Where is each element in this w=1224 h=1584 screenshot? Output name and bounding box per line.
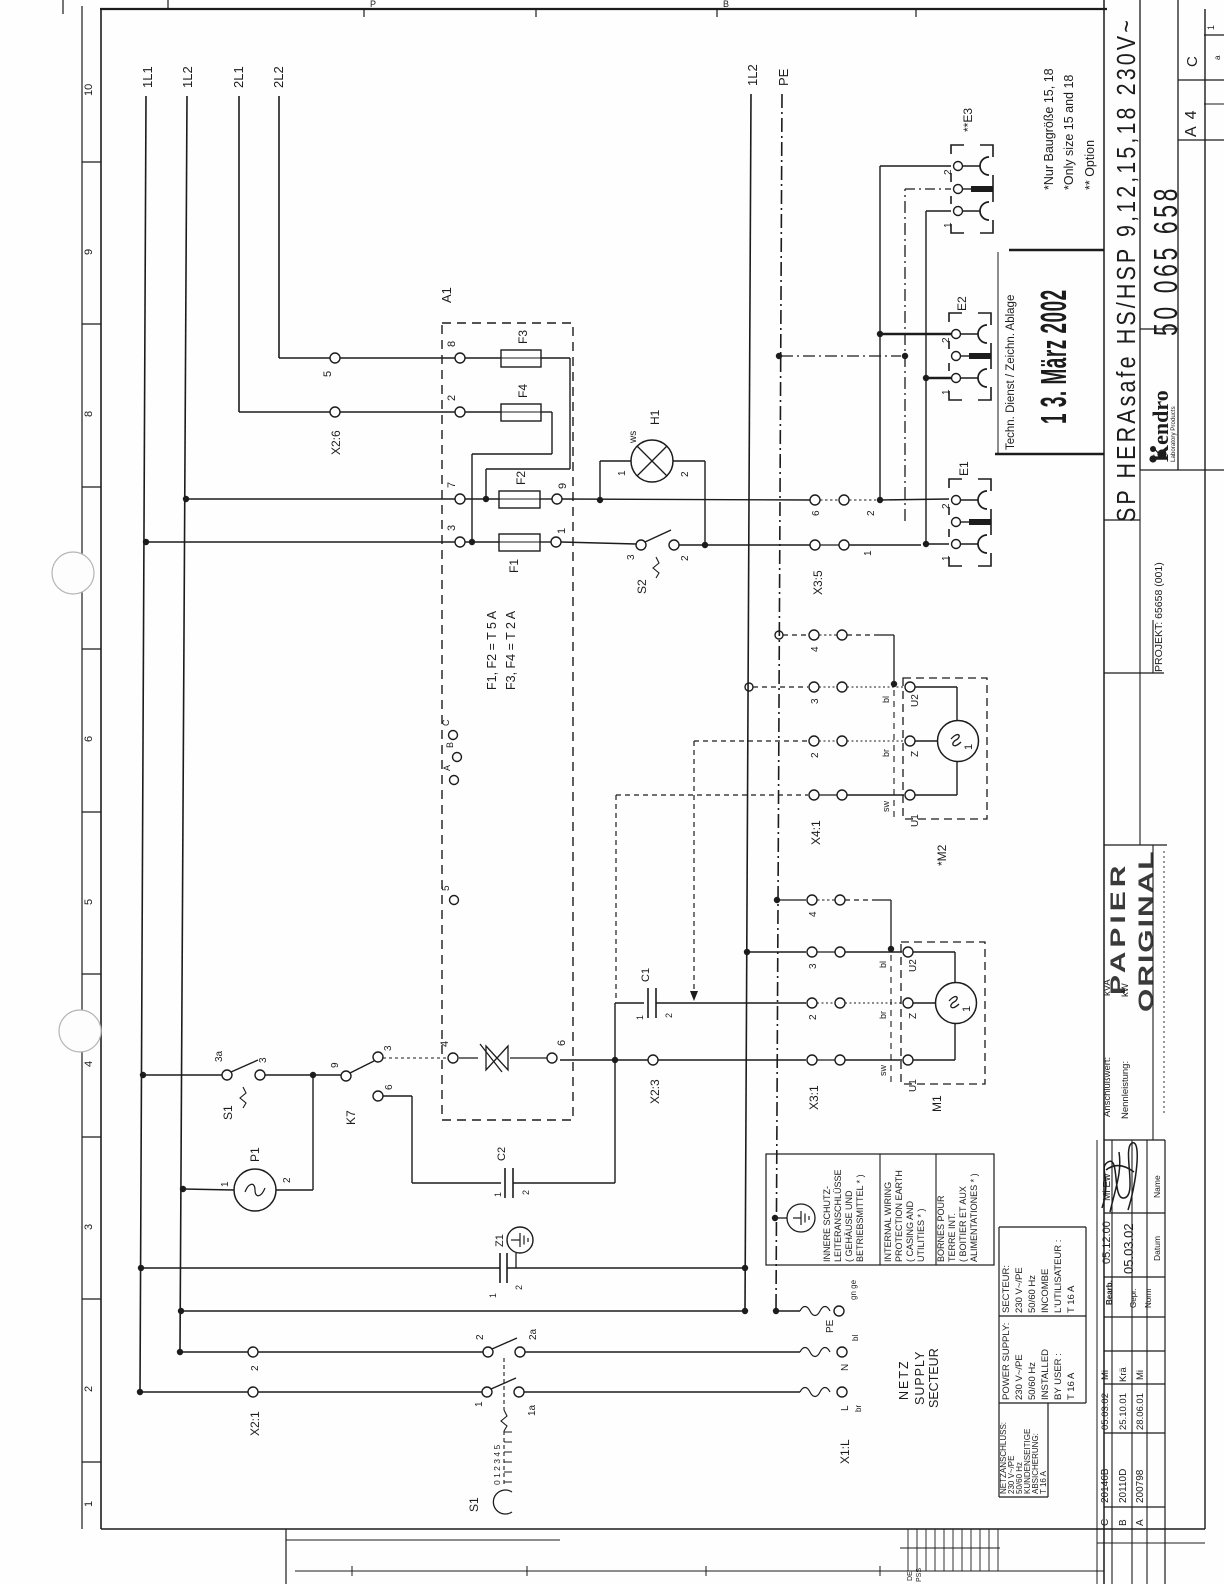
svg-text:1: 1 [943, 222, 954, 228]
punch hole lower [59, 1010, 101, 1052]
svg-text:25.10.01: 25.10.01 [1118, 1393, 1129, 1430]
riser wire 1 (E2 E3) [925, 211, 927, 544]
svg-text:2: 2 [808, 1014, 819, 1020]
X4:1 pin3 [809, 682, 819, 692]
svg-text:C: C [1100, 1519, 1111, 1526]
kendro cell bottom line [1140, 469, 1224, 471]
line filter Z1 earth circle [507, 1227, 533, 1253]
svg-text:B: B [445, 742, 455, 748]
svg-text:br: br [881, 749, 891, 757]
X3:1 pin1 [807, 1055, 817, 1065]
svg-text:U2: U2 [910, 694, 921, 707]
E1 PE terminal [952, 518, 961, 527]
relay contact K7 pin6 [373, 1091, 383, 1101]
title block inner verticals [1152, 845, 1154, 1140]
svg-text:sw: sw [878, 1065, 888, 1077]
varistor symbol [459, 1044, 547, 1072]
svg-text:*Only size 15 and 18: *Only size 15 and 18 [1062, 75, 1076, 190]
Z1 X-capacitor [499, 1253, 501, 1283]
svg-text:1 3. März 2002: 1 3. März 2002 [1035, 289, 1075, 424]
svg-text:X3:1: X3:1 [807, 1085, 821, 1110]
riser X2:3 to C1 and C2 [614, 1003, 616, 1183]
E2 terminal 1 [952, 374, 961, 383]
M2 row3 wire to U2 [847, 686, 904, 688]
svg-text:sw: sw [881, 801, 891, 813]
fuse F2 [465, 498, 499, 500]
svg-text:PAPIER: PAPIER [1105, 862, 1130, 995]
svg-text:6: 6 [556, 1040, 568, 1046]
svg-text:1: 1 [474, 1401, 485, 1407]
fuse F4 [465, 411, 501, 413]
svg-text:ws: ws [628, 431, 639, 444]
svg-text:5: 5 [441, 885, 452, 891]
svg-text:4: 4 [83, 1061, 95, 1067]
svg-text:8: 8 [83, 411, 95, 417]
S1 mechanism dashed link [503, 1358, 505, 1410]
riser wire 2 (E2 E3) [879, 166, 881, 500]
svg-text:a: a [1213, 55, 1222, 60]
svg-text:2: 2 [521, 1190, 531, 1195]
svg-text:9: 9 [557, 483, 569, 489]
svg-text:Mi Ew: Mi Ew [1102, 1173, 1113, 1201]
svg-text:Nennleistung:: Nennleistung: [1120, 1061, 1131, 1119]
svg-text:2: 2 [446, 395, 458, 401]
terminal X2:6 pin 5 [330, 353, 340, 363]
signature squiggle [1102, 1143, 1137, 1212]
bottom title strip cells [1097, 1542, 1205, 1544]
bottom margin step box [285, 1529, 287, 1584]
capacitor C1 [615, 1002, 644, 1004]
drawing frame top border [100, 8, 1107, 10]
frame left border [100, 9, 102, 1529]
Kendro logo [1148, 390, 1177, 462]
wire X3:5 to E1 pin1 [849, 544, 921, 546]
X3:1 pin4 [807, 895, 817, 905]
svg-text:4: 4 [808, 911, 819, 917]
svg-text:A4: A4 [1183, 103, 1200, 137]
svg-text:INSTALLED: INSTALLED [1040, 1349, 1051, 1400]
A1 pin 9 out [552, 494, 562, 504]
M2 row2 wire to Z [847, 740, 904, 742]
svg-text:INCOMBE: INCOMBE [1040, 1269, 1051, 1313]
wire S1aux to K7 [265, 1074, 341, 1076]
svg-text:S1: S1 [467, 1497, 481, 1512]
svg-text:bl: bl [878, 961, 888, 968]
M2 row4 PE tap [775, 631, 783, 639]
A1 pin 2 [455, 407, 465, 417]
E1 PE bar [961, 521, 969, 523]
svg-text:SECTEUR: SECTEUR [927, 1348, 941, 1408]
svg-text:6: 6 [811, 510, 822, 516]
svg-text:PE: PE [825, 1319, 836, 1333]
svg-text:9: 9 [83, 249, 95, 255]
svg-text:gn ge: gn ge [849, 1279, 858, 1300]
earth symbol in circle [787, 1204, 815, 1232]
lamp H1 [631, 440, 673, 482]
svg-text:** Option: ** Option [1083, 140, 1097, 190]
wire to S1 contact 2 [258, 1351, 483, 1353]
S1 main contact 1-1a [482, 1387, 492, 1397]
svg-text:2: 2 [810, 752, 821, 758]
drawing frame outer border [81, 6, 83, 1529]
svg-text:2: 2 [282, 1177, 293, 1183]
svg-text:9: 9 [330, 1062, 341, 1068]
M1 row2 wire from C1 [656, 1002, 806, 1004]
svg-text:20146B: 20146B [1100, 1468, 1111, 1503]
svg-text:2L2: 2L2 [271, 66, 286, 88]
svg-text:X1:L: X1:L [838, 1439, 852, 1464]
svg-text:F4: F4 [516, 384, 530, 398]
svg-text:1: 1 [83, 1501, 95, 1507]
svg-text:F2: F2 [514, 471, 528, 485]
svg-text:Norm: Norm [1144, 1288, 1153, 1308]
row L-N filter wire [138, 1265, 144, 1271]
svg-text:1: 1 [1206, 25, 1216, 30]
row F2-out wire to lamp junction [562, 499, 810, 500]
wire K7-6 to C2 [383, 1095, 412, 1097]
E1 terminal 2 [952, 496, 961, 505]
svg-text:3: 3 [383, 1045, 394, 1051]
bus 1L2 wire [180, 96, 187, 1350]
svg-text:230 V~/PE: 230 V~/PE [1014, 1267, 1025, 1313]
svg-text:3: 3 [83, 1224, 95, 1230]
svg-text:TERRE INT.: TERRE INT. [947, 1213, 957, 1262]
M2 motor [938, 721, 979, 762]
M2 motor wires [915, 686, 957, 688]
E3 feed 1 [926, 210, 951, 212]
svg-text:05.12.00: 05.12.00 [1101, 1221, 1113, 1264]
svg-text:Z: Z [910, 751, 921, 757]
title block big cell divider [1139, 0, 1141, 470]
wire X2:6 to A1 pin 2 [340, 411, 455, 413]
A1 spare pin 5 [450, 896, 459, 905]
svg-text:Z1: Z1 [494, 1234, 506, 1247]
E2 feed 1 thick [926, 377, 951, 379]
wire to S1 contact 1 [258, 1391, 482, 1393]
svg-text:SECTEUR:: SECTEUR: [1001, 1265, 1012, 1313]
M1 terminal U1 [903, 1055, 913, 1065]
svg-text:2: 2 [83, 1386, 95, 1392]
svg-text:kVA: kVA [1102, 979, 1113, 996]
svg-text:1: 1 [941, 555, 952, 561]
wire 1L2 to P1 [180, 1186, 186, 1192]
svg-text:10: 10 [83, 84, 95, 96]
svg-text:1: 1 [493, 1192, 503, 1197]
X4:1 pin2 [809, 736, 819, 746]
svg-text:K7: K7 [344, 1110, 358, 1125]
svg-text:E2: E2 [955, 296, 969, 311]
svg-text:P1: P1 [248, 1147, 262, 1162]
svg-text:T 16 A: T 16 A [1066, 1372, 1077, 1400]
svg-text:ORIGINAL: ORIGINAL [1133, 849, 1158, 1012]
A1 spare pins C B A [449, 731, 458, 740]
svg-text:SP HERAsafe HS/HSP 9,12,15,: SP HERAsafe HS/HSP 9,12,15,18 230V~ [1112, 17, 1142, 522]
svg-text:INTERNAL WIRING: INTERNAL WIRING [883, 1182, 893, 1262]
svg-text:NETZ: NETZ [897, 1359, 911, 1400]
dashed arrow from C1 to M2 row2 [693, 741, 695, 992]
E1 dashed bracket left [949, 479, 991, 566]
svg-text:( GEHÄUSE UND: ( GEHÄUSE UND [844, 1190, 854, 1262]
svg-text:X2:3: X2:3 [648, 1079, 662, 1104]
terminal X2:3 [648, 1055, 658, 1065]
svg-text:E1: E1 [957, 461, 971, 476]
terminal X2:1 pin2 [248, 1347, 258, 1357]
svg-text:br: br [854, 1405, 863, 1412]
wire X2:6-5 to A1 pin 8 [340, 357, 455, 359]
Z1 connection stem [515, 1253, 517, 1268]
wire lamp pin1 down [600, 460, 631, 462]
svg-text:2: 2 [475, 1334, 486, 1340]
M1 terminal Z [903, 998, 913, 1008]
M2 row3 tap 1L2 [745, 683, 753, 691]
X4:1 pin1 [809, 790, 819, 800]
E3 element bottom [963, 210, 980, 212]
svg-text:X4:1: X4:1 [809, 820, 823, 845]
svg-text:br: br [878, 1011, 888, 1019]
svg-text:3: 3 [626, 554, 637, 560]
svg-text:DE: DE [907, 1571, 914, 1581]
wire S1 1a to supply L [524, 1391, 800, 1393]
row F1-out wire to S2 [561, 542, 636, 544]
svg-text:B: B [723, 0, 729, 9]
wire 1L2 to pin7 [183, 496, 189, 502]
svg-text:1: 1 [963, 744, 975, 750]
wire 2L1 elbow to X2:6 [239, 411, 330, 413]
svg-text:1: 1 [488, 1293, 498, 1298]
M2 row2 dashed from C1 [694, 740, 808, 742]
M2 terminal Z [905, 736, 915, 746]
E2 PE bar [961, 355, 969, 357]
svg-text:bl: bl [881, 696, 891, 703]
S1 rotary position scale [504, 1432, 512, 1482]
bus PE wire dash-dot [776, 94, 782, 1311]
svg-text:A1: A1 [439, 287, 454, 303]
svg-text:C: C [441, 719, 451, 726]
M1 row3 tap 1L2 [744, 949, 750, 955]
svg-text:1: 1 [617, 470, 628, 476]
terminal X3:5 pin6 [810, 495, 820, 505]
M1 terminal U2 [903, 947, 913, 957]
E1 terminal 1 [952, 540, 961, 549]
M1 motor [936, 983, 977, 1024]
svg-text:Gepr.: Gepr. [1129, 1288, 1138, 1308]
E2 dashed bracket left [949, 313, 991, 400]
svg-text:L'UTILISATEUR :: L'UTILISATEUR : [1053, 1240, 1064, 1313]
A1 pin 3 [455, 537, 465, 547]
M2 row1 dashed feeder [616, 794, 808, 796]
X2:1 row1 wire [137, 1389, 143, 1395]
E1 dashed bracket right [978, 479, 991, 491]
svg-text:*Nur Baugröße 15, 18: *Nur Baugröße 15, 18 [1042, 68, 1056, 190]
svg-text:PE: PE [776, 68, 791, 86]
svg-text:H1: H1 [648, 409, 662, 425]
E3 PE terminal [954, 185, 963, 194]
fuse F1 [465, 541, 499, 543]
svg-text:4: 4 [439, 1041, 451, 1047]
stamp box techn dienst [1009, 249, 1104, 252]
A1 pin 8 [455, 353, 465, 363]
wire to E riser 2 [849, 499, 876, 501]
S1 aux row wire [140, 1072, 146, 1078]
svg-text:28.06.01: 28.06.01 [1135, 1393, 1146, 1430]
svg-text:2: 2 [514, 1285, 524, 1290]
wire X2:3 to X3:1 [658, 1059, 806, 1061]
svg-text:N: N [840, 1364, 851, 1371]
X4:1 pin4 [809, 630, 819, 640]
frame bottom border [101, 1528, 1205, 1530]
switch S2 [636, 540, 646, 550]
name table grid [1104, 1139, 1165, 1141]
X2:1 row2 wire [177, 1349, 183, 1355]
svg-text:3: 3 [808, 963, 819, 969]
E3 terminal 1 [954, 207, 963, 216]
svg-text:F1, F2 = T 5 A: F1, F2 = T 5 A [485, 610, 499, 690]
PE branch to riser [781, 355, 901, 357]
wire S2 to X3:5 [679, 544, 810, 546]
E3 PE bar [963, 188, 971, 190]
svg-text:L: L [840, 1405, 851, 1411]
fuse F3 [465, 357, 501, 359]
E2 terminal 2 [952, 330, 961, 339]
svg-text:Mi: Mi [1135, 1370, 1146, 1380]
terminal X2:6 pin 2 [330, 407, 340, 417]
svg-text:2: 2 [941, 337, 952, 343]
wire junction to P1 [312, 1075, 314, 1190]
svg-text:3a: 3a [214, 1050, 225, 1062]
frame right border [1204, 9, 1206, 1529]
svg-text:PSS: PSS [916, 1568, 923, 1582]
svg-text:2: 2 [941, 503, 952, 509]
svg-text:2: 2 [664, 1013, 674, 1018]
svg-text:S1: S1 [221, 1105, 235, 1120]
E3 dashed bracket left [951, 145, 993, 233]
bus 2L1 wire [238, 96, 240, 412]
wire 1L1 to pin3 [143, 539, 149, 545]
svg-text:2L1: 2L1 [231, 66, 246, 88]
svg-text:A: A [1135, 1519, 1146, 1526]
svg-text:1: 1 [863, 550, 874, 556]
svg-text:Z: Z [908, 1013, 919, 1019]
svg-text:2: 2 [680, 471, 691, 477]
S1 main contact 2-2a [483, 1347, 493, 1357]
E1 element top [961, 499, 978, 501]
svg-text:P: P [370, 0, 376, 9]
E2 element bottom [961, 377, 978, 379]
punch hole upper [52, 552, 94, 594]
wire K7-3 to A1 pin4 [383, 1057, 448, 1059]
supply terminal N [837, 1347, 847, 1357]
riser PE dash-dot [904, 189, 906, 521]
supply terminal PE [834, 1306, 844, 1316]
wire F4 out loop [551, 412, 553, 454]
svg-text:2: 2 [866, 510, 877, 516]
A1 pin 7 [455, 494, 465, 504]
svg-text:4: 4 [810, 646, 821, 652]
svg-text:Bearb.: Bearb. [1105, 1280, 1114, 1305]
svg-text:1L1: 1L1 [140, 66, 155, 88]
svg-text:X2:6: X2:6 [329, 430, 343, 455]
svg-text:1: 1 [556, 528, 568, 534]
wire S1 2a to supply N [525, 1351, 800, 1353]
power table outer [998, 1227, 1000, 1497]
format cell lines [1178, 79, 1224, 81]
svg-text:ALIMENTATIONES * ): ALIMENTATIONES * ) [969, 1173, 979, 1262]
frame left column ticks [82, 161, 101, 163]
svg-text:*M2: *M2 [935, 844, 949, 866]
E3 feed 2 [880, 165, 951, 167]
M2 row4 wire elbow [847, 634, 876, 636]
bus 1L2 right wire [745, 94, 751, 1311]
E2 feed 2 thick [880, 333, 951, 335]
M2 terminal U2 [905, 682, 915, 692]
svg-text:Laboratory Products: Laboratory Products [1170, 406, 1177, 462]
svg-text:5: 5 [322, 371, 334, 377]
svg-text:1a: 1a [527, 1404, 538, 1416]
svg-text:50/60 Hz: 50/60 Hz [1027, 1362, 1038, 1400]
E2 dashed bracket right [978, 313, 991, 325]
svg-text:Datum: Datum [1152, 1236, 1162, 1261]
svg-text:POWER SUPPLY:: POWER SUPPLY: [1001, 1323, 1012, 1400]
svg-text:U2: U2 [908, 959, 919, 972]
svg-text:3: 3 [446, 525, 458, 531]
title block left border [1103, 0, 1105, 1584]
svg-text:X3:5: X3:5 [811, 570, 825, 595]
svg-text:Anschlußwert:: Anschlußwert: [1102, 1057, 1113, 1117]
svg-text:3: 3 [810, 698, 821, 704]
E3 dashed bracket right [980, 145, 993, 157]
M2 row1 wire to U1 [847, 794, 904, 796]
M2 dashed enclosure [903, 678, 987, 819]
svg-text:B: B [1118, 1519, 1129, 1526]
drawing number cell top line [1140, 328, 1178, 330]
relay contact K7 [341, 1071, 351, 1081]
big cell bottom line [1104, 519, 1140, 521]
wire lamp pin2 down [673, 460, 705, 462]
svg-text:1L2: 1L2 [180, 66, 195, 88]
svg-text:20110D: 20110D [1118, 1469, 1129, 1503]
frame top ticks (landscape row letters) [363, 9, 365, 17]
svg-text:kW: kW [1120, 983, 1131, 997]
svg-text:U1: U1 [910, 814, 921, 827]
svg-text:S2: S2 [635, 579, 649, 594]
svg-text:T 16 A: T 16 A [1039, 1470, 1048, 1494]
svg-text:M1: M1 [930, 1095, 944, 1112]
A1 pin 6 [547, 1053, 557, 1063]
M1 row1 wire X2:3 [560, 1059, 648, 1061]
M1 row4 wire elbow [845, 899, 873, 901]
M2 option divider dashed [893, 690, 895, 818]
terminal X2:1 pin1 [248, 1387, 258, 1397]
X3:1 pin2 [807, 998, 817, 1008]
svg-text:U1: U1 [908, 1079, 919, 1092]
svg-text:Techn. Dienst / Zeichn. Ablage: Techn. Dienst / Zeichn. Ablage [1005, 295, 1017, 450]
svg-text:2: 2 [943, 169, 954, 175]
svg-text:( BOITIER ET AUX: ( BOITIER ET AUX [958, 1186, 968, 1262]
svg-text:Name: Name [1152, 1175, 1162, 1198]
row 1L2 left-right link [178, 1308, 184, 1314]
E3 feed PE dash-dot [905, 188, 951, 190]
E2 element top [961, 333, 978, 335]
S1 aux contact [222, 1070, 232, 1080]
svg-text:A: A [442, 765, 452, 771]
svg-text:Mi: Mi [1100, 1370, 1111, 1380]
svg-text:0 1 2 3 4 5: 0 1 2 3 4 5 [492, 1445, 502, 1485]
svg-text:F3, F4 = T 2 A: F3, F4 = T 2 A [504, 610, 518, 690]
svg-text:5: 5 [83, 899, 95, 905]
svg-text:2: 2 [680, 555, 691, 561]
internal earth terminals box [766, 1154, 994, 1265]
svg-text:6: 6 [384, 1084, 395, 1090]
